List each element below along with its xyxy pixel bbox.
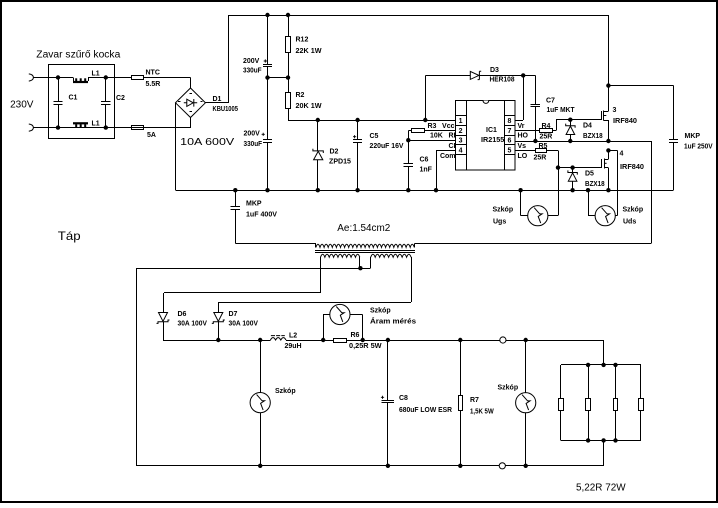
svg-text:29uH: 29uH: [285, 343, 302, 350]
svg-text:30A 100V: 30A 100V: [178, 321, 208, 328]
svg-text:BZX18: BZX18: [585, 181, 605, 188]
svg-text:7: 7: [507, 128, 511, 135]
svg-text:IRF840: IRF840: [613, 118, 637, 125]
svg-text:Szkóp: Szkóp: [493, 207, 514, 214]
svg-text:5A: 5A: [147, 132, 156, 139]
svg-text:BZX18: BZX18: [583, 133, 603, 140]
svg-text:1nF: 1nF: [420, 166, 433, 173]
svg-text:R5: R5: [539, 143, 548, 150]
svg-text:MKP: MKP: [685, 133, 701, 140]
svg-text:R3: R3: [428, 123, 437, 130]
svg-text:L1: L1: [92, 121, 100, 128]
svg-text:Szkóp: Szkóp: [275, 388, 296, 395]
svg-text:200V: 200V: [244, 131, 261, 138]
svg-text:HER108: HER108: [490, 77, 515, 84]
svg-text:5.5R: 5.5R: [146, 81, 161, 88]
svg-text:0,25R 5W: 0,25R 5W: [349, 343, 382, 350]
svg-text:IR2155: IR2155: [481, 137, 504, 144]
svg-text:4: 4: [459, 147, 463, 154]
svg-text:R2: R2: [296, 92, 305, 99]
svg-text:C8: C8: [399, 395, 408, 402]
svg-text:Uds: Uds: [623, 218, 636, 225]
svg-text:CI: CI: [449, 143, 456, 150]
svg-text:5: 5: [507, 147, 511, 154]
svg-text:Szkóp: Szkóp: [623, 207, 644, 214]
svg-text:R7: R7: [470, 397, 479, 404]
svg-text:L1: L1: [92, 70, 100, 77]
svg-text:D3: D3: [490, 67, 499, 74]
svg-text:R12: R12: [296, 37, 309, 44]
svg-text:L2: L2: [289, 333, 297, 340]
svg-text:NTC: NTC: [146, 70, 160, 77]
svg-text:C5: C5: [370, 133, 379, 140]
svg-text:30A 100V: 30A 100V: [229, 321, 259, 328]
svg-text:220uF 16V: 220uF 16V: [370, 143, 404, 150]
svg-text:C6: C6: [420, 156, 429, 163]
svg-text:1,5K 5W: 1,5K 5W: [470, 408, 494, 415]
svg-text:Szkóp: Szkóp: [370, 308, 391, 315]
svg-text:Szkóp: Szkóp: [498, 385, 519, 392]
svg-text:C1: C1: [69, 94, 78, 101]
svg-text:3: 3: [459, 138, 463, 145]
svg-text:10K: 10K: [430, 133, 443, 140]
svg-text:1uF 250V: 1uF 250V: [684, 143, 713, 150]
svg-text:C7: C7: [546, 98, 555, 105]
svg-text:680uF LOW ESR: 680uF LOW ESR: [399, 407, 452, 414]
svg-text:2: 2: [459, 128, 463, 135]
svg-text:RI: RI: [449, 133, 456, 140]
svg-text:10A 600V: 10A 600V: [180, 136, 234, 148]
svg-text:Vs: Vs: [518, 143, 527, 150]
svg-text:3: 3: [613, 107, 617, 114]
svg-text:Táp: Táp: [58, 229, 81, 243]
svg-text:R4: R4: [542, 123, 551, 130]
svg-text:1uF 400V: 1uF 400V: [246, 212, 277, 219]
svg-text:Vcc: Vcc: [442, 123, 455, 130]
svg-text:D5: D5: [585, 170, 594, 177]
svg-text:Ugs: Ugs: [493, 218, 506, 225]
svg-text:IC1: IC1: [486, 127, 497, 134]
svg-text:D1: D1: [213, 96, 222, 103]
svg-text:200V: 200V: [243, 58, 260, 65]
svg-text:IRF840: IRF840: [620, 164, 644, 171]
svg-text:22K 1W: 22K 1W: [296, 48, 322, 55]
svg-text:5,22R 72W: 5,22R 72W: [576, 483, 626, 494]
svg-text:D6: D6: [178, 311, 187, 318]
svg-text:D7: D7: [229, 311, 238, 318]
svg-text:1uF MKT: 1uF MKT: [547, 107, 576, 114]
svg-text:330uF: 330uF: [244, 141, 263, 148]
svg-text:ZPD15: ZPD15: [329, 158, 351, 165]
svg-text:MKP: MKP: [246, 200, 262, 207]
svg-text:Com: Com: [440, 153, 456, 160]
svg-text:25R: 25R: [540, 134, 553, 141]
svg-text:4: 4: [620, 151, 624, 158]
svg-text:D4: D4: [583, 123, 592, 130]
svg-text:Áram mérés: Áram mérés: [370, 317, 416, 326]
svg-text:Ae:1.54cm2: Ae:1.54cm2: [337, 223, 390, 234]
svg-text:1: 1: [459, 118, 463, 125]
svg-text:25R: 25R: [534, 155, 547, 162]
svg-text:8: 8: [507, 118, 511, 125]
svg-text:HO: HO: [518, 133, 529, 140]
svg-text:Zavar szűrő kocka: Zavar szűrő kocka: [36, 49, 120, 60]
svg-text:C2: C2: [116, 95, 125, 102]
svg-text:330uF: 330uF: [243, 67, 262, 74]
svg-text:Vr: Vr: [518, 123, 525, 130]
svg-text:6: 6: [507, 138, 511, 145]
svg-text:KBU1005: KBU1005: [213, 106, 239, 113]
svg-text:20K 1W: 20K 1W: [296, 103, 322, 110]
svg-text:R6: R6: [351, 332, 360, 339]
svg-text:230V: 230V: [10, 99, 34, 110]
svg-text:D2: D2: [330, 148, 339, 155]
svg-text:LO: LO: [518, 153, 528, 160]
